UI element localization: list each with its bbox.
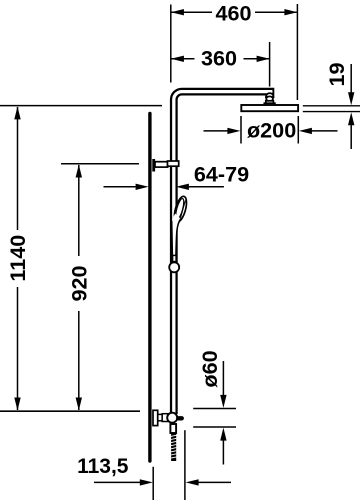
dimension ø200: extension lines — [240, 116, 242, 144]
slider ball — [169, 262, 179, 272]
dimension 113,5: extension lines — [152, 467, 154, 500]
dimension 19: dimension line and arrows — [348, 64, 354, 149]
dimension 1140: dimension line and arrows — [14, 106, 20, 410]
dimension 920: extension line at bracket — [61, 163, 139, 165]
hose nut — [170, 424, 176, 433]
slider knob — [173, 255, 177, 261]
svg-text:ø60: ø60 — [197, 350, 222, 387]
dimension ø60: extension lines — [193, 408, 236, 410]
hose (hatched) — [171, 433, 177, 461]
wall bracket collar on pipe — [168, 161, 179, 166]
wall bracket flange — [152, 159, 155, 172]
dimension 460: extension line right — [296, 4, 298, 100]
dimension ø200: dimension line and arrows — [204, 128, 338, 134]
shower riser pipe with top bend (tube outline) — [174, 92, 274, 414]
svg-text:19: 19 — [324, 62, 349, 86]
hand shower head — [172, 195, 189, 223]
hand shower handle body — [172, 214, 181, 256]
svg-text:1140: 1140 — [5, 235, 30, 282]
valve knob — [167, 413, 177, 423]
svg-text:360: 360 — [201, 45, 237, 70]
svg-text:113,5: 113,5 — [77, 455, 129, 478]
dimension 920: dimension line and arrows — [76, 165, 82, 411]
dimension ø60: dimension line and arrows — [220, 361, 226, 465]
valve escutcheon — [153, 410, 158, 425]
dimension 460: extension line left (shared with 360) — [170, 5, 172, 83]
shower head plate — [241, 105, 298, 111]
valve body step 2 — [162, 414, 168, 422]
ball joint under pipe end — [264, 93, 275, 105]
wall line — [148, 114, 151, 462]
dimension 64-79: dimension line and arrows — [104, 184, 224, 190]
bottom reference line (left) — [0, 410, 140, 412]
dimension 360: extension line right — [269, 42, 271, 87]
svg-text:460: 460 — [215, 0, 251, 25]
svg-text:920: 920 — [67, 265, 92, 301]
dimension 113,5: dimension line and arrows — [94, 479, 231, 485]
valve body step 1 — [158, 414, 162, 420]
dimension 460: dimension line and arrows — [171, 9, 298, 15]
wall bracket arm — [155, 162, 168, 167]
svg-text:64-79: 64-79 — [194, 161, 249, 186]
valve lever — [177, 416, 184, 420]
head-plane reference line (left, at shower head level) — [0, 105, 162, 107]
svg-text:ø200: ø200 — [247, 118, 296, 143]
dimension 19: extension lines right of head — [303, 105, 360, 107]
dimension 360: dimension line and arrows — [171, 56, 270, 62]
